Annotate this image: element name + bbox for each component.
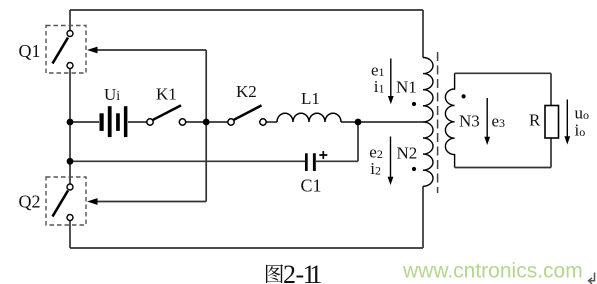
node junction dot cap rail left xyxy=(67,158,74,165)
svg-text:K2: K2 xyxy=(236,82,257,101)
switch K2 left contact xyxy=(228,119,234,125)
switch K2 blade xyxy=(234,105,262,119)
svg-text:Q2: Q2 xyxy=(19,192,41,212)
transformer primary winding N2 xyxy=(423,122,433,186)
wire left vertical lower xyxy=(69,221,71,249)
switch K1 right contact xyxy=(179,119,185,125)
wire left vertical middle xyxy=(69,69,71,185)
transformer secondary winding N3 xyxy=(445,73,454,167)
arrowhead into Q2 xyxy=(87,198,98,205)
svg-text:R: R xyxy=(529,111,541,130)
wire top rail xyxy=(70,9,423,11)
svg-text:Q1: Q1 xyxy=(19,41,41,61)
polarity dot N1 xyxy=(412,102,416,106)
wire K2-L1 segment xyxy=(266,121,277,123)
svg-text:N2: N2 xyxy=(397,144,418,163)
arrow e3 xyxy=(484,98,490,145)
svg-text:Ui: Ui xyxy=(104,85,120,104)
node junction dot L1/C1 xyxy=(355,119,362,126)
wire main rail segment battery-K1 xyxy=(70,121,147,123)
wire L1 to transformer xyxy=(341,121,423,123)
svg-text:io: io xyxy=(575,121,586,140)
svg-text:i1: i1 xyxy=(374,77,385,96)
control line to Q1 arrow xyxy=(97,49,206,51)
node junction dot at battery rail left xyxy=(67,119,74,126)
wire bottom rail xyxy=(70,247,423,249)
control vertical line xyxy=(205,50,207,202)
svg-text:K1: K1 xyxy=(156,85,177,104)
inductor L1 xyxy=(277,113,341,122)
switch K2 right contact xyxy=(260,119,266,125)
wire transformer primary top vertical xyxy=(422,10,424,58)
wire left vertical upper xyxy=(69,10,71,31)
caption glyph 图 xyxy=(266,264,283,283)
node junction dot control line xyxy=(203,119,210,126)
arrowhead into Q1 xyxy=(87,47,98,54)
switch Q2 bottom contact xyxy=(67,215,73,221)
switch K1 blade xyxy=(153,105,181,119)
svg-text:2-11: 2-11 xyxy=(283,260,322,284)
svg-text:N3: N3 xyxy=(459,112,480,131)
return mark bottom right xyxy=(589,273,595,284)
svg-text:i2: i2 xyxy=(370,159,381,178)
wire K1-K2 segment xyxy=(186,121,228,123)
polarity dot N3 xyxy=(462,94,466,98)
transformer core dashed line xyxy=(437,52,439,193)
arrow e1 i1 xyxy=(388,59,394,105)
switch K1 left contact xyxy=(147,119,153,125)
svg-text:e3: e3 xyxy=(492,112,506,131)
battery Ui plates xyxy=(100,106,128,137)
switch Q2 blade xyxy=(53,191,69,217)
switch Q1 blade xyxy=(53,38,69,64)
svg-text:L1: L1 xyxy=(301,89,320,108)
wire transformer primary bottom vertical xyxy=(422,186,424,248)
svg-text:N1: N1 xyxy=(396,78,417,97)
svg-text:www.cntronics.com: www.cntronics.com xyxy=(402,260,583,283)
arrow e2 i2 xyxy=(388,137,394,186)
arrow uo io xyxy=(564,100,570,145)
wire C1 branch vertical and horizontals xyxy=(70,122,358,161)
switch Q2 top contact xyxy=(67,184,73,190)
switch Q1 bottom contact xyxy=(67,63,73,69)
control line to Q2 arrow xyxy=(97,201,206,203)
capacitor C1 plus sign xyxy=(319,151,327,159)
switch box Q2 dashed xyxy=(46,177,86,225)
resistor R box xyxy=(545,106,559,139)
secondary loop wires xyxy=(455,73,551,167)
switch box Q1 dashed xyxy=(46,26,86,74)
transformer primary winding N1 xyxy=(423,58,433,122)
polarity dot N2 xyxy=(412,167,416,171)
svg-text:C1: C1 xyxy=(301,176,322,196)
switch Q1 top contact xyxy=(67,31,73,37)
capacitor C1 plates xyxy=(305,153,308,171)
